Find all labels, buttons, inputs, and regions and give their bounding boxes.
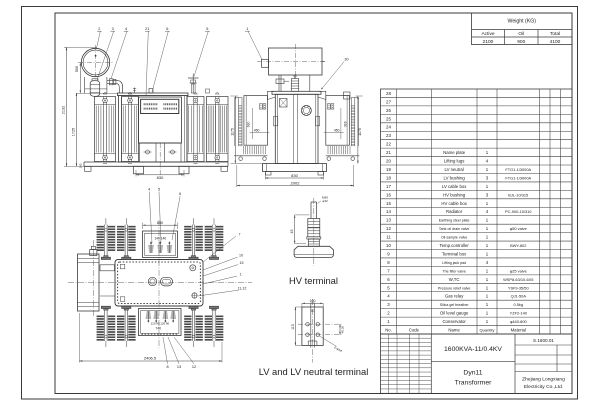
svg-text:16: 16 — [386, 192, 391, 197]
title block drawing number — [515, 344, 572, 346]
svg-text:11,12: 11,12 — [238, 287, 247, 291]
svg-text:1600KVA-11/0.4KV: 1600KVA-11/0.4KV — [444, 346, 502, 353]
plan view HV bushings — [150, 242, 152, 254]
svg-text:BJL-10/315: BJL-10/315 — [508, 192, 528, 197]
svg-text:1: 1 — [486, 277, 489, 282]
svg-text:5: 5 — [387, 285, 390, 290]
svg-text:3: 3 — [486, 192, 489, 197]
HV terminal dim 45 — [294, 215, 296, 244]
title block — [381, 334, 573, 394]
svg-text:LV and LV neutral terminal: LV and LV neutral terminal — [259, 366, 369, 377]
svg-text:PC-900-10/310: PC-900-10/310 — [505, 209, 532, 214]
dimension 2132 — [66, 47, 68, 166]
svg-text:WSP8-63/10-6X5: WSP8-63/10-6X5 — [503, 277, 533, 282]
svg-text:LV neutral: LV neutral — [445, 167, 464, 172]
plan view conservator — [78, 254, 100, 311]
svg-text:450: 450 — [334, 128, 340, 132]
LV terminal notch — [307, 341, 309, 345]
svg-text:1: 1 — [486, 294, 489, 299]
front view conservator support legs — [84, 77, 86, 93]
svg-text:26: 26 — [386, 108, 391, 113]
plan view conservator-tank pipe — [100, 265, 115, 271]
svg-text:Terminal box: Terminal box — [442, 251, 467, 256]
front view radiator banks — [95, 97, 116, 162]
side view radiators — [234, 98, 236, 147]
svg-text:Transformer: Transformer — [455, 380, 492, 387]
svg-text:15: 15 — [386, 201, 391, 206]
LV terminal 2x phi14 leader — [319, 336, 337, 347]
front view base — [84, 161, 228, 163]
title block model cell — [514, 334, 516, 394]
svg-text:4: 4 — [486, 260, 489, 265]
svg-text:Quantity: Quantity — [480, 327, 495, 332]
svg-text:LV bushing: LV bushing — [444, 175, 466, 180]
side view tank center pipes — [292, 94, 294, 163]
side view lifting lugs — [268, 91, 276, 99]
svg-text:1: 1 — [486, 218, 489, 223]
svg-text:450: 450 — [254, 128, 260, 132]
svg-text:18: 18 — [386, 175, 391, 180]
weight table top-right — [472, 13, 573, 45]
svg-text:1: 1 — [486, 150, 489, 155]
svg-text:1: 1 — [240, 273, 242, 277]
HV terminal collar — [307, 237, 321, 239]
svg-text:10: 10 — [386, 243, 391, 248]
svg-text:21: 21 — [145, 27, 149, 31]
svg-text:17: 17 — [386, 184, 391, 189]
dimension arrowheads — [136, 174, 139, 175]
svg-text:500: 500 — [75, 66, 79, 72]
svg-text:10: 10 — [239, 254, 243, 258]
dimension 830 front — [136, 174, 184, 176]
svg-text:9: 9 — [387, 251, 390, 256]
svg-text:1: 1 — [486, 235, 489, 240]
svg-text:S.1600.01: S.1600.01 — [533, 338, 554, 343]
svg-text:Zhejiang Longxiang: Zhejiang Longxiang — [522, 377, 565, 383]
svg-text:1: 1 — [486, 251, 489, 256]
front view base end pads — [85, 166, 92, 171]
dimension 1725 — [76, 93, 78, 166]
title block revision grid — [388, 334, 390, 394]
front view oil level gauge bottle — [92, 79, 98, 81]
plan view manhole circle — [148, 277, 156, 285]
svg-text:1725: 1725 — [72, 128, 76, 136]
svg-text:1: 1 — [486, 311, 489, 316]
svg-text:φ32: φ32 — [322, 199, 328, 203]
side view pipes and gas relay — [278, 75, 280, 91]
svg-text:2-φ14: 2-φ14 — [333, 345, 342, 353]
svg-text:1: 1 — [486, 226, 489, 231]
HV terminal threaded sections — [308, 219, 320, 228]
dimension 500 — [79, 63, 81, 94]
side view base feet — [266, 172, 272, 176]
dimension 830 side — [265, 177, 323, 179]
svg-text:Temp.controller: Temp.controller — [439, 243, 469, 248]
svg-text:4: 4 — [148, 188, 150, 192]
svg-text:1: 1 — [486, 319, 489, 324]
svg-text:8: 8 — [387, 260, 390, 265]
svg-text:23: 23 — [386, 133, 391, 138]
svg-text:1: 1 — [486, 201, 489, 206]
dimension 600 plan — [143, 224, 178, 226]
HV terminal base dome — [294, 246, 333, 257]
dimension 2002 side — [237, 185, 354, 187]
svg-text:8: 8 — [166, 365, 168, 369]
svg-text:Lifting jack pad: Lifting jack pad — [442, 261, 466, 265]
svg-text:11: 11 — [386, 235, 391, 240]
parts list table — [381, 89, 573, 334]
front view name plate text blocks — [144, 103, 158, 105]
svg-text:Tank oil drain valve: Tank oil drain valve — [439, 227, 470, 231]
side view tap switch box — [280, 99, 288, 108]
svg-text:YSF9-35/50: YSF9-35/50 — [508, 285, 530, 290]
svg-text:Dyn11: Dyn11 — [463, 370, 482, 377]
svg-text:1175: 1175 — [231, 128, 235, 136]
svg-text:0.5kg: 0.5kg — [513, 302, 523, 307]
svg-text:27: 27 — [386, 99, 391, 104]
svg-text:5: 5 — [206, 27, 208, 31]
svg-text:LV cable box: LV cable box — [442, 184, 467, 189]
svg-text:Material: Material — [511, 327, 526, 332]
svg-text:2: 2 — [98, 27, 100, 31]
plan view HV cable box — [143, 231, 178, 258]
front view lower valve boxes — [139, 142, 182, 144]
svg-text:Silica gel breather: Silica gel breather — [440, 303, 470, 307]
svg-text:QJ1-50A: QJ1-50A — [511, 294, 527, 299]
HV terminal centerline — [313, 198, 315, 266]
svg-text:3: 3 — [387, 302, 390, 307]
title block right grid — [515, 354, 572, 356]
svg-text:Radiator: Radiator — [446, 209, 463, 214]
svg-text:3: 3 — [486, 175, 489, 180]
LV terminal plate — [302, 307, 323, 345]
svg-text:19: 19 — [386, 167, 391, 172]
svg-text:φ50 valve: φ50 valve — [510, 226, 527, 231]
svg-text:28: 28 — [386, 91, 391, 96]
front view HV bushing with arrester — [188, 77, 199, 79]
svg-text:Oil level gauge: Oil level gauge — [440, 311, 469, 316]
svg-text:22: 22 — [386, 142, 391, 147]
svg-text:Code: Code — [409, 327, 420, 332]
svg-text:4: 4 — [486, 209, 489, 214]
svg-text:Oil sample valve: Oil sample valve — [441, 236, 467, 240]
svg-text:W,TC: W,TC — [449, 277, 460, 282]
side view tank — [272, 91, 321, 94]
plan view centerlines — [68, 282, 252, 284]
svg-text:The filter valve: The filter valve — [442, 269, 465, 273]
LV terminal holes — [306, 323, 309, 326]
svg-text:21: 21 — [386, 150, 391, 155]
svg-text:HV cable box: HV cable box — [441, 201, 467, 206]
LV terminal busbar — [310, 303, 312, 348]
svg-text:15: 15 — [240, 261, 244, 265]
svg-text:4: 4 — [125, 27, 127, 31]
plan view radiator combs — [104, 225, 106, 258]
side view manhole — [301, 106, 311, 116]
HV terminal stem — [310, 202, 312, 219]
svg-text:6: 6 — [179, 192, 181, 196]
plan view small fittings — [120, 264, 125, 269]
front view tank — [118, 93, 189, 96]
side view base — [263, 164, 327, 172]
svg-text:630: 630 — [246, 121, 250, 127]
svg-text:2: 2 — [387, 311, 390, 316]
svg-text:Conservator: Conservator — [442, 319, 466, 324]
svg-text:Lifting lugs: Lifting lugs — [444, 159, 465, 164]
front view jack pads — [134, 166, 144, 174]
side view HV bushing stack — [292, 79, 299, 92]
svg-text:Earthing steel plate: Earthing steel plate — [439, 219, 470, 223]
plan view LV bushings — [147, 311, 149, 323]
svg-text:830: 830 — [291, 173, 298, 178]
svg-text:Gas relay: Gas relay — [445, 294, 464, 299]
svg-text:120 90 120 90: 120 90 120 90 — [151, 321, 170, 325]
svg-text:1: 1 — [486, 243, 489, 248]
svg-text:20: 20 — [386, 159, 391, 164]
front view conservator circle — [81, 48, 109, 76]
svg-text:40,30: 40,30 — [340, 326, 344, 334]
svg-text:BWY-802: BWY-802 — [510, 243, 526, 248]
svg-text:115: 115 — [291, 324, 295, 330]
svg-text:φ25 valve: φ25 valve — [510, 268, 527, 273]
svg-text:30: 30 — [344, 58, 348, 62]
dimension 1175 left — [234, 96, 236, 164]
front view dim extension at tank top — [76, 92, 118, 94]
svg-text:YZF2-140: YZF2-140 — [510, 311, 528, 316]
svg-text:7: 7 — [387, 268, 390, 273]
svg-text:FTG1-1/3000A: FTG1-1/3000A — [505, 167, 531, 172]
svg-text:900: 900 — [517, 39, 525, 45]
svg-text:HV terminal: HV terminal — [289, 275, 338, 286]
front view tap panel — [139, 97, 182, 143]
front view pipe to tank — [107, 79, 116, 81]
svg-text:1: 1 — [486, 285, 489, 290]
svg-text:3: 3 — [112, 27, 114, 31]
svg-text:1175: 1175 — [358, 128, 362, 136]
svg-text:630: 630 — [343, 122, 347, 128]
svg-text:6: 6 — [166, 27, 168, 31]
svg-text:2100: 2100 — [483, 39, 494, 45]
svg-text:12: 12 — [192, 365, 196, 369]
svg-text:1: 1 — [387, 319, 390, 324]
svg-text:FTG1-1/3000A: FTG1-1/3000A — [505, 175, 531, 180]
LV terminal right dim — [339, 324, 341, 334]
svg-text:1: 1 — [486, 268, 489, 273]
svg-text:Pressure relief valve: Pressure relief valve — [438, 286, 471, 290]
svg-text:4: 4 — [387, 294, 390, 299]
svg-text:160: 160 — [79, 163, 83, 168]
front view top bushings — [134, 88, 136, 94]
svg-text:1: 1 — [486, 302, 489, 307]
plan view oval hand hole — [161, 277, 173, 286]
svg-text:Electricity Co.,Ltd.: Electricity Co.,Ltd. — [524, 384, 563, 390]
svg-text:1: 1 — [486, 184, 489, 189]
LV terminal dim 100 — [302, 302, 323, 304]
svg-text:Active: Active — [481, 31, 494, 37]
plan view LV box bolt ticks — [142, 333, 179, 335]
svg-text:12: 12 — [386, 226, 391, 231]
svg-text:Total: Total — [550, 31, 560, 37]
front view name plate frame — [141, 99, 179, 113]
svg-text:Name: Name — [448, 327, 460, 332]
LV terminal centerlines — [298, 323, 342, 325]
svg-text:45: 45 — [290, 230, 294, 234]
svg-text:φ440-800: φ440-800 — [510, 319, 528, 324]
svg-text:No.: No. — [385, 327, 392, 332]
svg-text:100: 100 — [310, 299, 316, 303]
dimension 2406.5 plan — [79, 360, 222, 362]
svg-text:13: 13 — [386, 218, 391, 223]
svg-text:Oil: Oil — [518, 31, 524, 37]
svg-text:4: 4 — [486, 159, 489, 164]
side view wall brackets — [274, 116, 278, 126]
svg-text:5: 5 — [158, 188, 160, 192]
plan view thermometer seat — [190, 265, 196, 271]
dimension 1175 right — [357, 96, 359, 164]
svg-text:2132: 2132 — [62, 106, 66, 114]
side view conservator cylinder — [269, 48, 323, 75]
svg-text:Weight (KG): Weight (KG) — [508, 19, 537, 25]
svg-text:2406.5: 2406.5 — [144, 356, 157, 361]
plan view oil sample valve — [192, 293, 197, 298]
LV terminal dim 115 — [294, 307, 296, 345]
svg-text:24: 24 — [386, 125, 391, 130]
plan view LV cable box — [139, 309, 182, 336]
svg-text:25: 25 — [386, 116, 391, 121]
svg-text:2002: 2002 — [291, 180, 301, 185]
svg-text:Name plate: Name plate — [443, 150, 466, 155]
svg-text:4100: 4100 — [550, 39, 561, 45]
svg-text:HV bushing: HV bushing — [443, 192, 466, 197]
svg-text:740: 740 — [156, 326, 162, 330]
svg-text:1: 1 — [246, 27, 248, 31]
svg-text:6: 6 — [387, 277, 390, 282]
svg-text:40: 40 — [311, 309, 315, 313]
svg-text:830: 830 — [157, 175, 164, 180]
side view thermometer pocket — [344, 92, 351, 99]
svg-text:140 140: 140 140 — [154, 237, 166, 241]
plan view tank — [115, 260, 203, 307]
svg-text:1: 1 — [486, 167, 489, 172]
svg-text:7: 7 — [239, 233, 241, 237]
svg-text:14: 14 — [386, 209, 391, 214]
svg-text:13: 13 — [177, 365, 181, 369]
